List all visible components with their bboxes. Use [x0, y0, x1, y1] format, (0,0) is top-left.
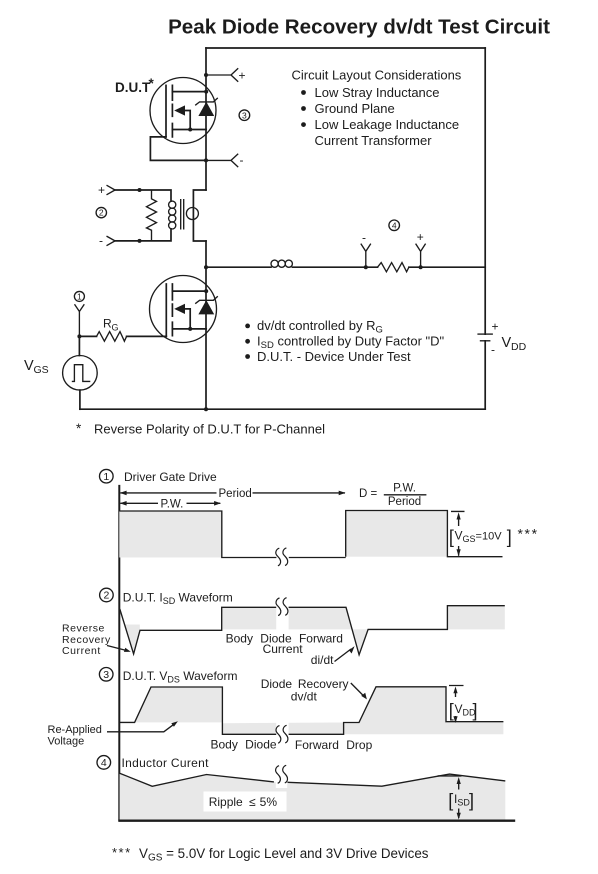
- node primary bottom: [138, 239, 142, 243]
- svg-text:P.W.: P.W.: [393, 482, 416, 494]
- resistor R sense: [378, 263, 409, 272]
- svg-text:4: 4: [392, 221, 397, 231]
- svg-text:]: ]: [469, 791, 474, 811]
- node source junction on bottom rail: [204, 407, 208, 411]
- svg-text:D.U.T. VDS Waveform: D.U.T. VDS Waveform: [123, 669, 238, 685]
- svg-text:V: V: [24, 358, 34, 374]
- svg-text:D.U.T. - Device Under Test: D.U.T. - Device Under Test: [257, 349, 411, 364]
- probe - (node 4): [361, 231, 371, 270]
- svg-text:2: 2: [103, 590, 109, 602]
- footnote: [112, 845, 429, 864]
- svg-text:-: -: [362, 231, 366, 245]
- dimension VGS=10V: [449, 511, 539, 556]
- text dv/dt notes: [245, 318, 444, 364]
- svg-text:Current: Current: [263, 642, 304, 656]
- svg-text:+: +: [417, 230, 424, 244]
- node 2: [96, 207, 106, 217]
- break waveform 4: [276, 766, 281, 784]
- svg-text:Ground Plane: Ground Plane: [315, 101, 395, 116]
- waveform 4 inductor current fill: [120, 773, 506, 820]
- wire right rail lower: [484, 341, 486, 409]
- transformer T1 primary top wire: [115, 190, 171, 201]
- transformer T1 primary bottom wire: [115, 229, 171, 241]
- svg-text:Body Diode: Body Diode: [211, 738, 277, 752]
- svg-text:4: 4: [101, 757, 107, 769]
- svg-text:-: -: [240, 153, 244, 167]
- wire to right rail: [409, 266, 485, 268]
- wire VGS bottom: [79, 390, 81, 409]
- svg-text:Current Transformer: Current Transformer: [315, 133, 433, 148]
- svg-text:Forward Drop: Forward Drop: [295, 738, 373, 752]
- svg-text:*: *: [149, 76, 155, 91]
- waveform 1 gate drive pulse 1: [119, 511, 222, 558]
- label di/dt: [311, 646, 355, 667]
- svg-text:Recovery: Recovery: [62, 634, 111, 646]
- svg-text:*: *: [76, 421, 82, 436]
- text circuit layout considerations: [292, 68, 462, 149]
- source VGS: [63, 356, 98, 391]
- svg-text:3: 3: [103, 669, 109, 681]
- transformer T1 primary winding: [169, 201, 176, 229]
- label D = P.W. / Period: [359, 482, 426, 508]
- waveform 3 label: [99, 668, 237, 685]
- wire main vertical lower: [205, 241, 207, 409]
- svg-text:Driver Gate Drive: Driver Gate Drive: [124, 470, 217, 484]
- note reverse polarity: [76, 421, 325, 437]
- svg-text:1: 1: [103, 471, 109, 483]
- wire right rail upper: [484, 48, 486, 334]
- waveform 4 label: [97, 756, 209, 770]
- svg-text:di/dt: di/dt: [311, 653, 334, 667]
- waveform 3 VDS trace: [119, 687, 503, 735]
- svg-text:Re-Applied: Re-Applied: [48, 724, 102, 736]
- waveform 2 ISD fill left V: [124, 625, 140, 654]
- dimension Period: [120, 488, 346, 500]
- label VDD: [502, 335, 527, 353]
- probe + (node 2): [98, 183, 115, 197]
- svg-text:Period: Period: [388, 496, 421, 508]
- svg-text:dv/dt: dv/dt: [291, 690, 318, 704]
- break gap waveform 3: [276, 720, 288, 749]
- svg-text:GS: GS: [34, 364, 49, 376]
- svg-text:P.W.: P.W.: [161, 499, 184, 511]
- waveform 4 baseline: [118, 820, 515, 822]
- label body diode forward drop: [211, 738, 373, 752]
- dimension P.W.: [120, 499, 221, 511]
- svg-text:[: [: [448, 791, 453, 811]
- battery VDD: [477, 320, 498, 357]
- inductor L1: [271, 260, 292, 267]
- node drain junction: [204, 265, 208, 269]
- node 1: [74, 291, 84, 301]
- svg-text:Ripple ≤5%: Ripple ≤5%: [209, 795, 278, 809]
- waveform 2 ISD fill middle: [222, 607, 368, 655]
- break waveform 2: [276, 598, 281, 616]
- label diode recovery dv/dt: [261, 677, 367, 703]
- label reverse recovery current: [62, 623, 131, 658]
- waveform 1 gate drive pulse 2: [346, 511, 448, 557]
- svg-text:]: ]: [507, 527, 512, 547]
- label body diode forward current: [226, 631, 343, 656]
- waveform 2 ISD trace: [120, 606, 505, 655]
- svg-text:+: +: [98, 183, 105, 197]
- transformer T1 secondary winding: [186, 208, 198, 220]
- wire gate-source loop (top DUT): [150, 137, 206, 161]
- svg-text:Current: Current: [62, 645, 101, 657]
- svg-text:+: +: [492, 320, 499, 334]
- waveform 2 label: [100, 588, 233, 606]
- svg-text:D.U.T. ISD Waveform: D.U.T. ISD Waveform: [123, 590, 233, 606]
- svg-text:1: 1: [77, 291, 82, 301]
- wire inductor line: [206, 266, 271, 268]
- svg-text:VGS = 5.0V for Logic Level and: VGS = 5.0V for Logic Level and 3V Drive …: [139, 846, 429, 864]
- node 3: [239, 110, 250, 121]
- svg-text:Reverse: Reverse: [62, 623, 105, 635]
- svg-text:Peak Diode Recovery dv/dt Test: Peak Diode Recovery dv/dt Test Circuit: [168, 16, 550, 39]
- waveform 3 VDS fill band and pulse 2: [222, 687, 503, 735]
- svg-text:[: [: [449, 527, 454, 547]
- node drain + probe: [204, 68, 246, 82]
- resistor (transformer damping): [147, 190, 157, 241]
- mosfet U1 D.U.T (top): [150, 78, 218, 144]
- wire main vertical upper: [205, 48, 207, 190]
- waveform 4 inductor current trace: [120, 773, 506, 786]
- svg-text:Reverse Polarity of D.U.T for: Reverse Polarity of D.U.T for P-Channel: [94, 422, 325, 437]
- dimension ISD: [438, 776, 474, 820]
- svg-text:V: V: [502, 335, 512, 351]
- transformer T1 core: [181, 199, 184, 230]
- svg-text:G: G: [112, 323, 119, 333]
- svg-text:2: 2: [99, 208, 104, 218]
- label VGS: [24, 358, 49, 376]
- wire bottom rail: [80, 408, 485, 410]
- svg-text:3: 3: [242, 110, 247, 120]
- node primary top: [138, 188, 142, 192]
- wire top rail: [206, 47, 485, 49]
- wire secondary jog: [193, 190, 206, 241]
- waveform axis: [118, 485, 120, 821]
- probe + (node 4): [416, 230, 426, 269]
- dimension VDD: [449, 686, 478, 724]
- mosfet Q1 driver (bottom): [150, 276, 218, 343]
- svg-text:***: ***: [112, 845, 132, 860]
- svg-text:Low Leakage Inductance: Low Leakage Inductance: [315, 117, 460, 132]
- break waveform 1: [276, 548, 281, 566]
- waveform 2 ISD fill right: [447, 606, 504, 630]
- break gap waveform 2: [276, 600, 288, 632]
- svg-text:+: +: [239, 69, 246, 83]
- node source - probe: [204, 153, 244, 167]
- svg-text:-: -: [99, 234, 103, 248]
- svg-text:Voltage: Voltage: [48, 736, 85, 748]
- break waveform 3: [276, 726, 281, 744]
- svg-text:-: -: [491, 343, 495, 357]
- svg-text:Low Stray Inductance: Low Stray Inductance: [315, 85, 440, 100]
- svg-text:DD: DD: [511, 341, 527, 353]
- probe - (node 2): [99, 234, 115, 248]
- probe node 1: [75, 304, 85, 338]
- svg-text:D.U.T: D.U.T: [115, 80, 151, 95]
- svg-text:***: ***: [518, 526, 539, 542]
- svg-text:Period: Period: [219, 488, 252, 500]
- svg-text:Circuit Layout Considerations: Circuit Layout Considerations: [292, 68, 462, 83]
- label re-applied voltage: [48, 721, 178, 747]
- svg-text:[: [: [449, 701, 454, 721]
- svg-text:]: ]: [473, 701, 478, 721]
- break gap waveform 4: [276, 762, 287, 788]
- svg-text:VGS=10V: VGS=10V: [455, 529, 503, 545]
- waveform 1 label: [100, 469, 218, 484]
- node 4: [389, 220, 400, 231]
- waveform 3 VDS fill pulse 1: [135, 687, 223, 722]
- svg-text:D =: D =: [359, 488, 378, 500]
- wire VGS top: [78, 336, 80, 355]
- svg-text:Inductor Curent: Inductor Curent: [122, 756, 210, 770]
- resistor RG: [79, 317, 166, 342]
- wire to sense resistor: [292, 266, 377, 268]
- label ripple: [204, 792, 287, 812]
